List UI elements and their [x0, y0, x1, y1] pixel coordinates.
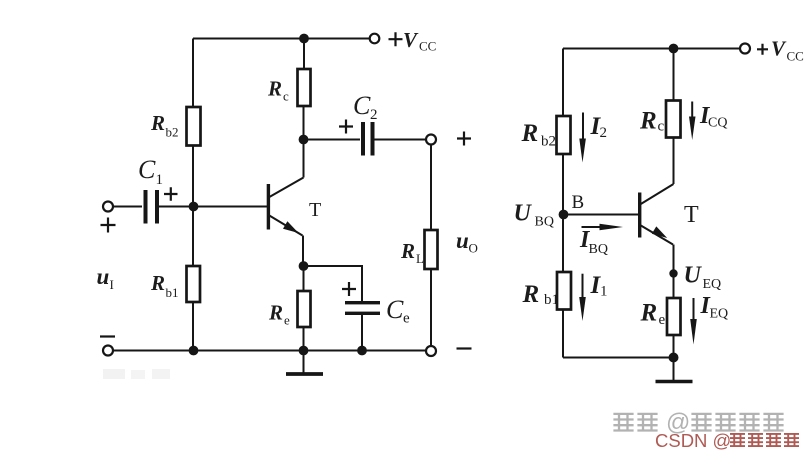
- wire collector node to C2: [304, 139, 361, 141]
- svg-text:R: R: [267, 77, 282, 101]
- wire Rc top to rail: [303, 39, 305, 70]
- arrow IEQ: [690, 298, 697, 345]
- svg-text:R: R: [640, 300, 658, 327]
- capacitor Ce: [345, 301, 380, 315]
- svg-text:EQ: EQ: [703, 277, 722, 292]
- svg-text:BQ: BQ: [589, 242, 608, 257]
- label + at output: [457, 132, 471, 146]
- label ICQ: [699, 103, 727, 131]
- svg-text:BQ: BQ: [535, 215, 554, 230]
- svg-text:U: U: [684, 263, 703, 289]
- resistor Rb2 (left): [187, 107, 201, 146]
- svg-text:R: R: [639, 108, 657, 135]
- svg-text:u: u: [456, 228, 469, 253]
- terminal bottom-right: [426, 346, 436, 356]
- transistor T (right): [638, 184, 674, 245]
- svg-text:R: R: [521, 120, 539, 147]
- wire bottom rail (right circuit): [563, 357, 674, 359]
- wire emitter node to Ce: [304, 266, 363, 302]
- junction dot on top rail at Rc branch: [299, 34, 309, 44]
- wire Ce to bottom rail: [361, 315, 363, 351]
- label + right of C1: [164, 187, 178, 200]
- wire Rb2 to base node: [192, 146, 194, 207]
- wire base node down to Rb1: [192, 207, 194, 267]
- svg-text:b1: b1: [544, 292, 559, 308]
- svg-text:b2: b2: [166, 125, 179, 140]
- wire emitter node to Re: [303, 266, 305, 291]
- wire Rb1 to bottom rail: [192, 302, 194, 351]
- label Rb2 (right): [521, 120, 557, 150]
- svg-text:1: 1: [156, 172, 164, 188]
- svg-text:V: V: [771, 37, 787, 61]
- label UEQ: [684, 263, 722, 293]
- svg-text:R: R: [522, 281, 540, 308]
- wire emitter to emitter node: [302, 236, 304, 267]
- svg-text:R: R: [268, 301, 283, 325]
- svg-text:u: u: [97, 264, 110, 289]
- svg-text:R: R: [400, 239, 415, 263]
- label minus at bottom-right: [457, 347, 472, 349]
- watermark smudge bottom-left: [103, 369, 170, 379]
- resistor RL: [425, 230, 438, 269]
- svg-text:e: e: [403, 311, 410, 327]
- wire emitter to node UEQ: [673, 245, 675, 274]
- resistor Re (right): [667, 298, 681, 335]
- wire RL to bottom-right terminal: [430, 269, 432, 346]
- label Rc (right): [639, 108, 665, 135]
- junction dot emitter node: [299, 261, 309, 271]
- wire UEQ node to Re (right): [673, 274, 675, 299]
- svg-text:2: 2: [370, 107, 378, 123]
- arrow I1: [579, 274, 586, 321]
- terminal input ui: [103, 202, 113, 212]
- svg-text:I: I: [110, 277, 114, 292]
- label + above Ce: [342, 282, 356, 296]
- svg-text:C: C: [138, 155, 156, 184]
- wire Re to bottom node (right): [673, 335, 675, 358]
- label C2: [353, 91, 378, 123]
- wire Re to bottom rail: [303, 327, 305, 351]
- wire rail down to Rb2 (right): [562, 49, 564, 117]
- resistor Rc (left): [298, 69, 311, 106]
- svg-text:U: U: [514, 201, 533, 227]
- watermark zhihu: [613, 413, 633, 432]
- junction dot bottom rail at Ce: [357, 346, 367, 356]
- label RL: [400, 239, 424, 266]
- label +Vcc (left circuit): [389, 28, 437, 54]
- capacitor C1: [144, 190, 160, 224]
- svg-text:C: C: [386, 295, 404, 324]
- svg-text:CQ: CQ: [708, 116, 727, 131]
- label Rb1 (left): [150, 271, 179, 300]
- label uI: [97, 264, 114, 292]
- wire C1 to transistor base: [159, 206, 267, 208]
- wire node B to Rb1 (right): [562, 215, 564, 274]
- svg-text:b2: b2: [541, 134, 556, 150]
- resistor Re (left): [298, 291, 311, 327]
- junction dot top rail at Rc branch (right): [669, 44, 679, 54]
- wire collector to Rc (right): [673, 137, 675, 184]
- resistor Rb2 (right): [557, 116, 571, 154]
- svg-text:CSDN @: CSDN @: [655, 430, 731, 451]
- svg-text:L: L: [416, 251, 424, 266]
- label +Vcc (right circuit): [757, 37, 804, 64]
- resistor Rc (right): [666, 101, 681, 138]
- svg-text:e: e: [284, 313, 290, 328]
- wire output terminal to RL: [430, 145, 432, 231]
- svg-text:CC: CC: [787, 49, 804, 64]
- wire Vcc rail down to Rb2: [192, 39, 194, 109]
- junction dot bottom rail (right): [669, 353, 679, 363]
- svg-text:b1: b1: [166, 285, 179, 300]
- wire Rc top to rail (right): [673, 49, 675, 101]
- svg-text:c: c: [283, 89, 289, 104]
- wire node B to base (right): [563, 214, 638, 216]
- label minus above bottom-left terminal: [100, 335, 115, 337]
- junction dot bottom rail at Rb1: [189, 346, 199, 356]
- label + left of C2: [339, 120, 353, 134]
- svg-text:e: e: [659, 312, 666, 328]
- label Ce: [386, 295, 410, 327]
- terminal +Vcc (left circuit): [370, 34, 380, 44]
- svg-text:2: 2: [600, 125, 608, 141]
- wire input terminal to C1: [113, 206, 142, 208]
- arrow IBQ: [582, 224, 624, 231]
- svg-text:T: T: [684, 202, 699, 228]
- svg-text:O: O: [469, 241, 478, 256]
- svg-text:R: R: [150, 271, 165, 295]
- label I1: [590, 272, 608, 300]
- label Re (left): [268, 301, 290, 328]
- label uO: [456, 228, 478, 256]
- label IEQ: [700, 293, 729, 322]
- wire Rb1 to bottom rail (right): [562, 309, 564, 358]
- terminal +Vcc (right circuit): [740, 44, 750, 54]
- svg-text:T: T: [309, 199, 321, 221]
- arrow ICQ: [689, 102, 696, 141]
- ground (right circuit): [656, 358, 693, 382]
- label C1: [138, 155, 163, 188]
- label Re (right): [640, 300, 666, 329]
- label Rc (left): [267, 77, 289, 104]
- wire bottom rail (left circuit): [113, 350, 426, 352]
- wire collector to Rc: [303, 106, 305, 178]
- ground (left circuit): [286, 351, 323, 375]
- label Rb1 (right): [522, 281, 560, 308]
- svg-text:EQ: EQ: [710, 307, 729, 322]
- svg-text:c: c: [658, 119, 665, 135]
- svg-text:B: B: [572, 192, 585, 213]
- label IBQ: [579, 227, 608, 257]
- terminal output top: [426, 135, 436, 145]
- svg-text:CC: CC: [419, 39, 436, 54]
- label UBQ: [514, 201, 554, 230]
- node B junction dot: [559, 210, 569, 220]
- label + below input terminal: [101, 218, 116, 233]
- wire top rail (left circuit): [193, 38, 370, 40]
- svg-text:V: V: [403, 28, 419, 52]
- capacitor C2: [361, 122, 375, 156]
- svg-text:1: 1: [600, 284, 608, 300]
- junction dot collector node: [299, 135, 309, 145]
- junction dot bottom rail at Re: [299, 346, 309, 356]
- wire C2 to output terminal: [375, 139, 427, 141]
- transistor T (left): [267, 178, 304, 236]
- resistor Rb1 (right): [557, 272, 571, 310]
- wire top rail (right circuit): [563, 48, 740, 50]
- label I2: [590, 113, 608, 141]
- terminal bottom-left: [103, 346, 113, 356]
- resistor Rb1 (left): [187, 266, 201, 302]
- svg-text:R: R: [150, 111, 165, 135]
- svg-text:C: C: [353, 91, 371, 120]
- junction dot base node: [189, 202, 199, 212]
- label Rb2 (left): [150, 111, 179, 140]
- arrow I2: [579, 113, 586, 163]
- wire Rb2 to node B: [562, 154, 564, 215]
- node UEQ dot: [669, 269, 677, 277]
